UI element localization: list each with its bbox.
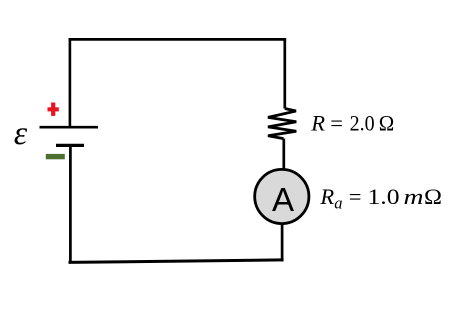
svg-text:=: = [349, 184, 362, 209]
wire left lower [69, 145, 72, 262]
svg-text:R: R [319, 184, 334, 209]
svg-text:2.0: 2.0 [350, 111, 375, 136]
label Ra = 1.0 mΩ [319, 184, 442, 213]
svg-text:=: = [330, 111, 343, 136]
svg-text:Ω: Ω [379, 111, 395, 136]
wire right upper [283, 38, 286, 108]
resistor R [268, 109, 296, 139]
battery plus sign [48, 103, 59, 116]
ammeter A [255, 169, 309, 223]
svg-text:A: A [272, 181, 294, 218]
svg-text:Ω: Ω [424, 184, 442, 209]
wire right lower [281, 224, 284, 261]
wire bottom [69, 260, 284, 263]
svg-text:m: m [404, 184, 424, 209]
battery cell ε : negative plate [56, 144, 84, 147]
wire left upper [69, 38, 72, 127]
svg-text:ε: ε [14, 115, 28, 152]
wire top [69, 38, 287, 41]
label R = 2.0 Ω [310, 111, 394, 136]
wire right middle [282, 139, 285, 170]
svg-text:a: a [334, 193, 342, 212]
svg-text:1.0: 1.0 [368, 184, 400, 209]
battery minus sign [46, 154, 65, 159]
svg-text:R: R [310, 111, 325, 136]
battery cell ε : positive plate [40, 126, 99, 129]
